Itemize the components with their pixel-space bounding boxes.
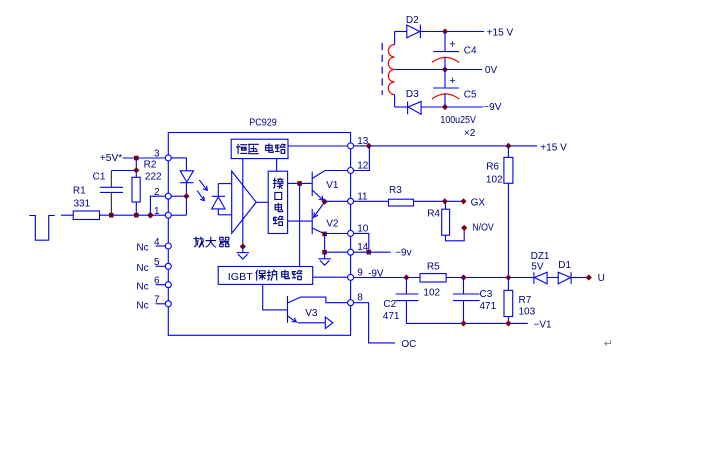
wire	[156, 284, 166, 286]
pin 9	[348, 274, 354, 280]
wire	[547, 277, 558, 279]
wire	[353, 277, 420, 279]
pin 8	[348, 300, 354, 306]
transistor V1	[312, 171, 324, 201]
label R7	[519, 295, 532, 306]
svg-text:R3: R3	[389, 185, 402, 196]
svg-text:↵: ↵	[604, 338, 613, 350]
wire	[444, 32, 446, 52]
pin 8 label	[357, 293, 363, 304]
arrow out	[325, 317, 333, 328]
svg-text:12: 12	[357, 161, 369, 172]
label R6	[486, 161, 499, 172]
svg-text:R1: R1	[73, 186, 86, 197]
label R1	[73, 186, 86, 197]
svg-text:C3: C3	[480, 289, 493, 300]
wire	[353, 303, 395, 343]
pin 13	[348, 143, 354, 149]
label R4	[427, 208, 440, 219]
pin 5 label	[154, 257, 160, 268]
ground	[318, 259, 330, 265]
svg-text:Nc: Nc	[136, 263, 148, 274]
label C2	[383, 299, 396, 310]
svg-text:+15 V: +15 V	[540, 142, 567, 153]
label +15 V	[540, 142, 567, 153]
wire	[420, 31, 484, 33]
svg-text:102: 102	[486, 175, 503, 186]
transistor V3	[288, 296, 301, 323]
photodiode	[212, 184, 225, 215]
pin 1	[165, 212, 171, 218]
svg-text:PC929: PC929	[249, 118, 277, 129]
svg-text:IGBT: IGBT	[228, 272, 253, 283]
pin 6 label	[154, 276, 160, 287]
label -9V pin14	[395, 248, 411, 259]
wire	[444, 70, 446, 88]
wire	[395, 69, 482, 71]
wire	[135, 202, 137, 215]
svg-text:11: 11	[357, 191, 368, 202]
junction	[134, 213, 139, 218]
wire	[263, 284, 288, 310]
svg-text:C4: C4	[464, 45, 477, 56]
pin 3 label	[154, 149, 160, 160]
svg-text:+: +	[449, 75, 455, 87]
label D1	[558, 260, 571, 271]
node N/OV	[461, 222, 494, 233]
svg-text:−V1: −V1	[534, 319, 553, 330]
wire	[218, 184, 231, 215]
pin 12	[348, 168, 354, 174]
pin 10	[348, 230, 354, 236]
wire	[353, 233, 368, 252]
svg-text:471: 471	[480, 301, 497, 312]
svg-text:×2: ×2	[464, 128, 476, 139]
svg-text:V1: V1	[326, 180, 339, 191]
wire	[395, 31, 407, 33]
svg-text:Nc: Nc	[136, 243, 148, 254]
label +5V*	[100, 153, 123, 164]
transformer core dashed line	[381, 43, 383, 95]
label R2	[144, 160, 157, 171]
wire	[446, 277, 533, 279]
pin 14 label	[357, 242, 369, 253]
label -9V pin9	[368, 268, 384, 279]
wire	[256, 201, 268, 203]
junction	[240, 243, 246, 249]
capacitor C3	[453, 278, 480, 324]
label -9V	[483, 102, 501, 113]
svg-text:R6: R6	[486, 161, 499, 172]
svg-text:OC: OC	[401, 339, 416, 350]
junction	[505, 274, 511, 280]
label Nc pin 6	[136, 281, 148, 292]
wire	[299, 183, 301, 266]
pin 10 label	[357, 223, 369, 234]
label 0V	[485, 65, 498, 76]
diode D1	[558, 272, 571, 284]
label C3	[480, 289, 493, 300]
resistor R7	[504, 278, 513, 324]
svg-text:+15 V: +15 V	[487, 28, 514, 39]
label 102 R5	[423, 287, 440, 298]
op-amp amplifier triangle	[232, 171, 257, 233]
label 102 R6	[486, 175, 503, 186]
wire	[171, 195, 187, 197]
wire	[276, 159, 278, 172]
svg-text:D3: D3	[406, 89, 419, 100]
pin 4 label	[154, 237, 160, 248]
wire	[242, 247, 244, 253]
svg-text:−9V: −9V	[483, 102, 501, 113]
wire	[414, 200, 462, 202]
label C1	[93, 171, 106, 182]
svg-text:+5V*: +5V*	[100, 153, 123, 164]
pin 11 label	[357, 191, 368, 202]
pin 2	[165, 193, 171, 199]
svg-text:102: 102	[423, 287, 440, 298]
svg-text:R5: R5	[427, 261, 440, 272]
ground	[237, 253, 249, 259]
wire	[135, 158, 137, 177]
label V2	[326, 219, 339, 230]
wire	[324, 252, 326, 259]
label C5	[464, 90, 477, 101]
wire	[242, 159, 244, 247]
junction	[147, 212, 154, 219]
junction	[297, 181, 302, 186]
wire	[156, 303, 166, 305]
svg-text:V3: V3	[305, 308, 318, 319]
label 331	[74, 199, 91, 210]
svg-text:222: 222	[145, 171, 162, 182]
junction	[322, 199, 328, 205]
pin 4	[165, 243, 171, 249]
junction	[403, 274, 409, 280]
resistor R4	[442, 201, 465, 241]
wire	[353, 200, 388, 202]
svg-text:Nc: Nc	[136, 281, 148, 292]
zener DZ1	[534, 272, 547, 284]
pin 9 label	[357, 267, 363, 278]
wire	[353, 145, 537, 147]
pin 3	[165, 155, 171, 161]
wire	[571, 277, 586, 279]
pin 11	[348, 198, 354, 204]
transistor V2	[312, 202, 324, 234]
svg-text:Nc: Nc	[136, 300, 148, 311]
wire	[394, 32, 396, 108]
capacitor C5 plus	[449, 75, 455, 87]
label +15 V	[487, 28, 514, 39]
svg-text:C2: C2	[383, 299, 396, 310]
junction	[460, 274, 466, 280]
wire	[325, 200, 348, 202]
label D3	[406, 89, 419, 100]
label 5V	[531, 261, 544, 272]
svg-text:V2: V2	[326, 219, 339, 230]
junction	[442, 198, 448, 204]
svg-text:GX: GX	[471, 197, 486, 208]
wire	[301, 297, 348, 303]
wire	[313, 276, 348, 278]
capacitor C4	[432, 52, 459, 70]
svg-text:DZ1: DZ1	[531, 251, 550, 262]
pin 6	[165, 282, 171, 288]
op-amp IC PC929 outline	[168, 133, 350, 336]
pin 5	[165, 263, 171, 269]
transformer winding T1	[388, 45, 394, 95]
junction	[505, 143, 511, 149]
light arrows	[197, 180, 207, 201]
junction	[442, 66, 448, 72]
svg-text:331: 331	[74, 199, 91, 210]
wire	[288, 182, 312, 184]
capacitor C1	[100, 171, 136, 216]
label Nc pin 4	[136, 243, 148, 254]
wire	[61, 214, 73, 216]
label DZ1	[531, 251, 550, 262]
svg-text:D1: D1	[558, 260, 571, 271]
label V1	[326, 180, 339, 191]
label 100u25V	[440, 115, 476, 126]
svg-text:−9v: −9v	[395, 248, 411, 259]
wire	[325, 170, 348, 172]
wire	[353, 146, 369, 171]
LED optocoupler emitter	[180, 171, 193, 215]
capacitor C5	[432, 88, 459, 107]
svg-text:10: 10	[357, 223, 369, 234]
pin 1 label	[154, 206, 160, 217]
node GX	[460, 197, 485, 208]
label 222	[145, 171, 162, 182]
wire	[325, 233, 348, 235]
junction	[367, 250, 372, 255]
pin 12 label	[357, 161, 369, 172]
svg-text:8: 8	[357, 293, 363, 304]
junction	[366, 143, 372, 149]
svg-text:C5: C5	[464, 90, 477, 101]
svg-text:100u25V: 100u25V	[440, 115, 476, 126]
label x2	[464, 128, 476, 139]
svg-text:R2: R2	[144, 160, 157, 171]
wire	[100, 214, 166, 216]
svg-text:C1: C1	[93, 171, 106, 182]
block constant-voltage circuit	[231, 139, 288, 158]
diode D2	[407, 25, 421, 39]
label 103	[519, 307, 536, 318]
resistor R5	[420, 274, 446, 282]
label R3	[389, 185, 402, 196]
diode D3	[408, 102, 422, 115]
resistor R3	[389, 199, 414, 206]
wire	[353, 251, 390, 253]
wire	[171, 158, 187, 171]
pilcrow return mark	[604, 338, 613, 350]
junction	[109, 213, 114, 218]
node U	[586, 273, 605, 284]
pin 7 label	[154, 295, 160, 306]
svg-text:R4: R4	[427, 208, 440, 219]
svg-text:471: 471	[383, 311, 400, 322]
svg-text:D2: D2	[406, 15, 419, 26]
wire	[171, 214, 187, 216]
pin 13 label	[357, 136, 369, 147]
label PC929	[249, 118, 277, 129]
label OC	[401, 339, 416, 350]
resistor R1	[73, 211, 99, 220]
wire	[325, 251, 348, 253]
pin 7	[165, 301, 171, 307]
svg-text:0V: 0V	[485, 65, 498, 76]
capacitor C2	[396, 278, 419, 324]
wire	[123, 157, 166, 159]
pin 14	[348, 249, 354, 255]
label Nc pin 7	[136, 300, 148, 311]
wire	[288, 220, 312, 222]
resistor R2	[132, 177, 140, 202]
svg-text:R7: R7	[519, 295, 532, 306]
junction	[133, 167, 139, 173]
label -V1	[534, 319, 553, 330]
label Nc pin 5	[136, 263, 148, 274]
junction	[442, 104, 448, 110]
svg-text:103: 103	[519, 307, 536, 318]
wire	[298, 322, 326, 324]
label 471 C2	[383, 311, 400, 322]
label amplifier	[194, 237, 229, 247]
wire	[156, 265, 166, 267]
svg-text:9: 9	[357, 267, 363, 278]
junction	[134, 156, 139, 161]
wire	[395, 106, 408, 108]
label R5	[427, 261, 440, 272]
block interface circuit	[268, 171, 287, 233]
label D2	[406, 15, 419, 26]
wire	[156, 245, 166, 247]
label C4	[464, 45, 477, 56]
resistor R6	[504, 146, 513, 278]
svg-text:N/OV: N/OV	[472, 222, 494, 233]
junction	[460, 320, 466, 326]
wire	[421, 106, 483, 108]
block IGBT protection circuit	[218, 267, 313, 285]
label 471 C3	[480, 301, 497, 312]
svg-text:+: +	[449, 38, 455, 50]
wire	[324, 234, 326, 252]
label V3	[305, 308, 318, 319]
wire	[288, 145, 348, 147]
pin 2 label	[154, 187, 160, 198]
capacitor C4 plus	[449, 38, 455, 50]
svg-text:5V: 5V	[531, 261, 544, 272]
junction	[442, 28, 448, 34]
junction	[322, 232, 327, 237]
svg-text:U: U	[598, 273, 605, 284]
junction	[505, 320, 511, 326]
pulse input waveform	[29, 216, 55, 241]
wire	[150, 196, 165, 215]
wire -V1 rail	[406, 322, 527, 324]
junction	[322, 250, 327, 255]
junction	[183, 193, 189, 199]
